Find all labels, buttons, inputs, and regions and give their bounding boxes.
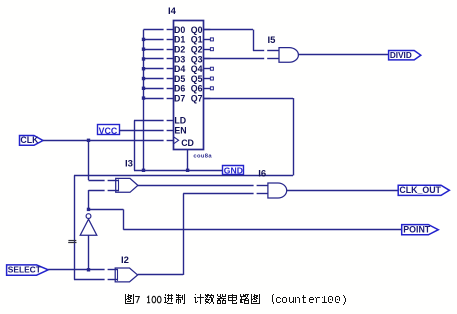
svg-text:DIVID: DIVID	[390, 51, 412, 60]
svg-text:SELECT: SELECT	[8, 265, 42, 275]
svg-text:D7: D7	[174, 93, 185, 103]
svg-text:I3: I3	[125, 158, 133, 169]
svg-text:D1: D1	[174, 35, 185, 45]
svg-text:CLK_OUT: CLK_OUT	[399, 185, 441, 195]
svg-text:D6: D6	[174, 84, 185, 94]
svg-text:I2: I2	[121, 255, 129, 266]
svg-text:D5: D5	[174, 74, 185, 84]
svg-text:LD: LD	[174, 116, 186, 126]
svg-text:Q0: Q0	[191, 25, 203, 35]
svg-text:POINT: POINT	[403, 224, 431, 234]
svg-text:D4: D4	[174, 64, 185, 74]
svg-text:D2: D2	[174, 44, 185, 54]
svg-text:Q3: Q3	[191, 54, 203, 64]
svg-text:Q5: Q5	[191, 74, 203, 84]
svg-text:cou8a: cou8a	[193, 153, 212, 159]
svg-text:I4: I4	[168, 6, 177, 17]
svg-text:Q6: Q6	[191, 84, 203, 94]
svg-text:VCC: VCC	[99, 126, 118, 136]
svg-text:Q4: Q4	[191, 64, 203, 74]
svg-text:EN: EN	[174, 126, 186, 136]
svg-text:Q2: Q2	[191, 44, 203, 54]
svg-text:I6: I6	[258, 168, 266, 179]
svg-text:D3: D3	[174, 54, 185, 64]
svg-text:CD: CD	[181, 138, 194, 148]
svg-text:CLK: CLK	[20, 135, 39, 145]
svg-text:GND: GND	[224, 165, 243, 175]
svg-text:Q1: Q1	[191, 35, 203, 45]
svg-text:I5: I5	[268, 35, 277, 46]
svg-text:Q7: Q7	[191, 93, 203, 103]
svg-text:D0: D0	[174, 25, 185, 35]
